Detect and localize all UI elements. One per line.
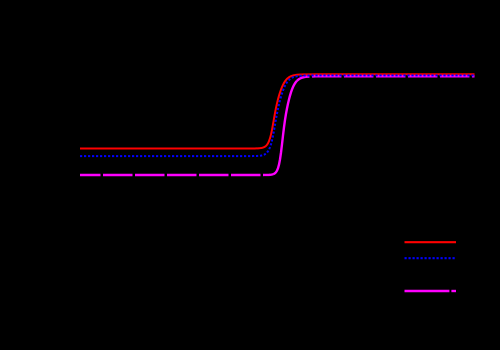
magenta long-dash curve, upper flat segment <box>297 76 475 80</box>
legend blue dotted key sample <box>405 257 457 259</box>
legend magenta dash tail <box>451 290 456 292</box>
blue dotted curve (series 2) <box>80 75 475 156</box>
legend magenta dashed key sample <box>405 290 450 292</box>
magenta long-dash curve, left flat segment (series 4) <box>80 173 273 176</box>
legend red key sample <box>405 241 457 243</box>
magenta long-dash curve, steep segment <box>273 81 297 174</box>
red solid curve (series 1) <box>80 74 475 148</box>
